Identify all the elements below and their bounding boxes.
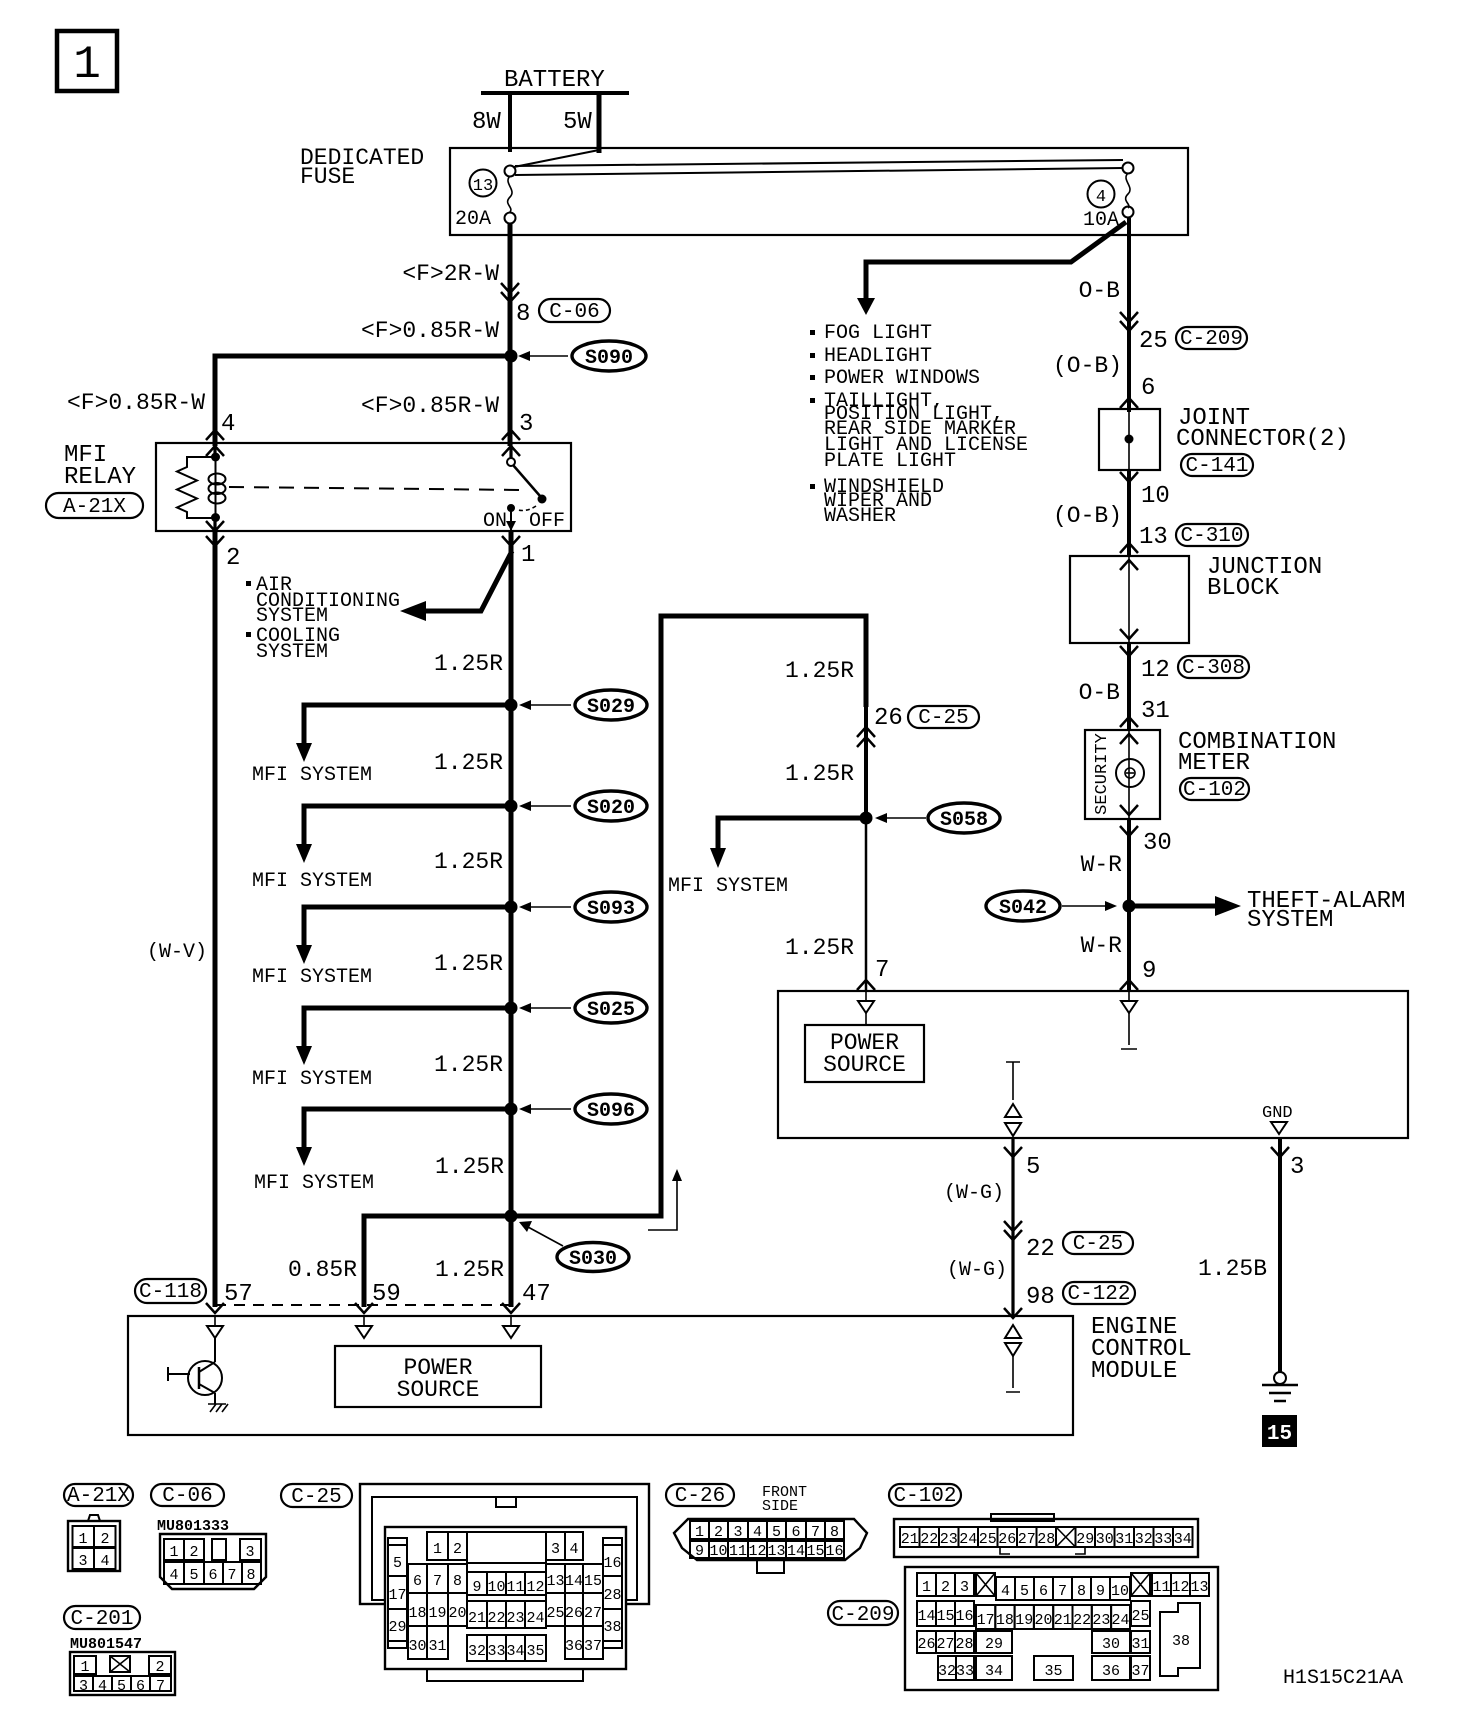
connector drawing C-102 [894,1514,1198,1557]
wire rail to S058 upper [864,616,868,818]
svg-text:21: 21 [468,1610,486,1627]
splice S090 junction [505,350,518,363]
svg-text:4: 4 [569,1541,578,1558]
svg-text:MU801333: MU801333 [157,1518,229,1535]
junction block inner chevrons [1120,560,1138,639]
svg-text:15: 15 [936,1608,954,1625]
svg-text:MFI SYSTEM: MFI SYSTEM [668,875,788,898]
internal feed node [1005,1062,1021,1136]
pin 4 connector chevrons [206,430,224,456]
connector tag C-209 (bottom) [828,1601,898,1627]
svg-text:1.25R: 1.25R [435,1154,504,1180]
svg-text:2: 2 [226,545,240,572]
arrow S020 to junction [519,801,571,811]
svg-text:C-201: C-201 [70,1608,133,1631]
svg-text:(W-V): (W-V) [147,941,207,964]
svg-text:29: 29 [985,1636,1003,1653]
svg-text:24: 24 [959,1531,977,1548]
svg-text:C-118: C-118 [139,1281,202,1304]
svg-text:17: 17 [977,1612,995,1629]
svg-text:27: 27 [1018,1531,1036,1548]
svg-text:S020: S020 [587,797,635,820]
svg-text:FUSE: FUSE [300,164,355,190]
svg-text:24: 24 [526,1610,544,1627]
connector crossing 22 C-25 chevrons [1004,1221,1022,1240]
svg-text:31: 31 [1141,698,1170,725]
connector crossing 26 C-25 chevrons [857,727,875,747]
connector crossing C-06 chevrons [501,283,519,302]
ECM pin 59 terminal [356,1316,372,1338]
svg-text:19: 19 [428,1605,446,1622]
svg-text:4: 4 [221,411,235,438]
battery B1 [481,67,629,94]
wire through junction block [1128,556,1130,643]
svg-text:CONNECTOR(2): CONNECTOR(2) [1176,426,1349,453]
svg-text:PLATE LIGHT: PLATE LIGHT [824,450,956,473]
arrow S042 to junction [1062,901,1117,911]
page number box 1 [57,31,117,91]
svg-text:20A: 20A [455,208,491,231]
svg-text:34: 34 [985,1663,1003,1680]
wire pin 2 stub from coil [213,517,216,531]
svg-text:23: 23 [506,1610,524,1627]
svg-text:5: 5 [189,1567,198,1584]
svg-text:27: 27 [936,1636,954,1653]
pin 1 exit chevrons [502,536,520,546]
svg-text:S025: S025 [587,999,635,1022]
svg-text:98: 98 [1026,1284,1055,1311]
svg-text:9: 9 [695,1543,704,1560]
svg-text:8: 8 [1077,1583,1086,1600]
svg-text:C-209: C-209 [831,1604,894,1627]
svg-text:6: 6 [136,1678,145,1695]
svg-text:33: 33 [487,1643,505,1660]
svg-text:29: 29 [1076,1531,1094,1548]
svg-text:30: 30 [1102,1636,1120,1653]
svg-text:2: 2 [453,1541,462,1558]
wire meter to pin 9 [1127,819,1131,991]
svg-text:W-R: W-R [1081,933,1123,959]
ECM pin 47 terminal [503,1316,519,1338]
svg-text:C-102: C-102 [1183,779,1246,802]
arrow S090 to junction [518,351,568,361]
svg-text:FOG LIGHT: FOG LIGHT [824,322,932,345]
svg-text:1: 1 [169,1544,178,1561]
svg-text:21: 21 [1054,1612,1072,1629]
svg-text:18: 18 [408,1605,426,1622]
svg-text:22: 22 [920,1531,938,1548]
svg-text:METER: METER [1178,750,1250,777]
arrow to light systems [857,298,875,315]
svg-text:1: 1 [922,1579,931,1596]
junction block entry chevron [1120,543,1138,553]
svg-text:7: 7 [811,1524,820,1541]
svg-text:9: 9 [472,1579,481,1596]
svg-text:1: 1 [73,39,101,91]
connector tag C-26 [666,1484,734,1508]
svg-text:2: 2 [714,1524,723,1541]
svg-text:O-B: O-B [1079,680,1120,706]
branch wire to MFI system 1 [304,705,511,745]
svg-text:S030: S030 [569,1248,617,1271]
svg-text:1: 1 [78,1531,87,1548]
svg-text:26: 26 [565,1605,583,1622]
svg-text:7: 7 [875,957,889,984]
svg-text:MFI SYSTEM: MFI SYSTEM [252,870,372,893]
svg-text:20: 20 [448,1605,466,1622]
relay switch [507,458,547,531]
connector tag C-141 [1181,454,1253,478]
relay coil node bottom [211,513,220,522]
ECM internal transistor [168,1338,222,1404]
svg-text:25: 25 [1139,328,1168,355]
svg-text:C-141: C-141 [1185,455,1248,478]
svg-text:GND: GND [1262,1104,1293,1123]
svg-text:C-26: C-26 [675,1485,725,1508]
svg-text:5: 5 [1020,1583,1029,1600]
splice tag S090 [572,341,646,371]
svg-text:35: 35 [1044,1663,1062,1680]
splice S030 junction [505,1210,518,1223]
ground wire 1.25B [1278,1138,1282,1372]
connector drawing C-26 [674,1519,867,1573]
svg-text:S029: S029 [587,696,635,719]
svg-text:10: 10 [1111,1583,1129,1600]
svg-text:5W: 5W [563,109,592,136]
svg-text:SYSTEM: SYSTEM [1247,907,1333,934]
svg-text:4: 4 [753,1524,762,1541]
svg-text:32: 32 [938,1663,956,1680]
svg-text:8W: 8W [472,109,501,136]
svg-text:C-102: C-102 [893,1485,956,1508]
connector tag C-25 (wire) [1063,1232,1133,1256]
branch wire to MFI system (S058) [718,818,866,850]
wire 5W to bus junction [514,150,599,167]
svg-text:H1S15C21AA: H1S15C21AA [1283,1667,1403,1690]
wire S030 to ECM pin 47 [509,1216,514,1307]
meter entry chevron [1120,717,1138,727]
branch wire to MFI system 2 [304,806,511,846]
svg-text:(O-B): (O-B) [1053,353,1122,379]
svg-text:15: 15 [1267,1423,1292,1446]
svg-text:1.25R: 1.25R [434,951,503,977]
svg-text:12: 12 [1141,657,1170,684]
svg-text:16: 16 [825,1543,843,1560]
arrow S058 to junction [875,813,926,823]
svg-text:26: 26 [998,1531,1016,1548]
arrow to A/C and cooling systems [400,551,512,621]
arrow to theft-alarm system [1129,896,1241,916]
svg-text:8: 8 [246,1567,255,1584]
svg-text:14: 14 [917,1608,935,1625]
joint connector node [1125,435,1134,444]
connector tag C-06 (bottom) [151,1484,224,1508]
wire joint connector to junction block [1127,470,1131,556]
svg-text:25: 25 [1131,1608,1149,1625]
svg-text:C-25: C-25 [291,1486,341,1509]
svg-text:12: 12 [526,1579,544,1596]
connector drawing C-06 [160,1534,266,1589]
svg-text:19: 19 [1015,1612,1033,1629]
svg-text:MFI SYSTEM: MFI SYSTEM [254,1172,374,1195]
svg-text:59: 59 [372,1281,401,1308]
ECM pin 57 terminal [207,1316,223,1338]
power source box (right) [778,991,1408,1138]
meter exit chevron [1120,826,1138,836]
wire relay pin 2 down (W-V) [213,531,218,1307]
splice S093 junction [505,901,518,914]
pin 6 entry chevron [1120,398,1138,408]
svg-text:28: 28 [955,1636,973,1653]
svg-text:38: 38 [603,1619,621,1636]
svg-text:22: 22 [1073,1612,1091,1629]
svg-text:4: 4 [169,1567,178,1584]
connector tag C-102 (bottom) [889,1484,961,1508]
joint connector exit chevron [1120,472,1138,482]
svg-text:3: 3 [245,1544,254,1561]
svg-text:S090: S090 [585,347,633,370]
svg-text:8: 8 [830,1524,839,1541]
svg-text:C-25: C-25 [1073,1233,1123,1256]
fog light list [810,322,1028,528]
svg-text:11: 11 [729,1543,747,1560]
svg-text:3: 3 [960,1579,969,1596]
fuse number 4 [1088,181,1115,208]
svg-text:1.25R: 1.25R [785,761,854,787]
svg-text:22: 22 [487,1610,505,1627]
svg-text:SOURCE: SOURCE [823,1052,906,1078]
svg-text:1.25R: 1.25R [434,750,503,776]
svg-text:29: 29 [388,1619,406,1636]
fuse 4 element [1123,163,1134,218]
svg-text:28: 28 [1037,1531,1055,1548]
continuation arrow annotation [648,1169,682,1230]
wire fuse 4 branch to lights [866,222,1126,301]
svg-text:(W-G): (W-G) [947,1259,1007,1282]
wire fuse 4 output O-B [1127,218,1131,412]
svg-text:24: 24 [1111,1612,1129,1629]
wire pin 4 stub to coil [213,443,216,457]
security indicator lamp [1116,759,1144,787]
svg-text:33: 33 [956,1663,974,1680]
svg-text:5: 5 [117,1678,126,1695]
branch wire to MFI system 5 [304,1109,511,1149]
svg-text:3: 3 [519,411,533,438]
svg-text:RELAY: RELAY [64,464,136,491]
svg-text:31: 31 [1131,1636,1149,1653]
fuse number 13 [470,170,497,197]
connector tag C-122 [1063,1282,1135,1306]
svg-text:18: 18 [996,1612,1014,1629]
svg-text:S042: S042 [999,897,1047,920]
connector tag C-201 [64,1606,140,1631]
relay resistor [177,457,215,518]
splice S042 junction [1123,900,1136,913]
wire through meter [1128,730,1130,819]
svg-text:2: 2 [100,1531,109,1548]
svg-text:BLOCK: BLOCK [1207,575,1280,602]
pin 3 connector chevrons [502,430,520,456]
svg-text:ON: ON [483,510,507,533]
svg-text:C-310: C-310 [1180,525,1243,548]
svg-text:9: 9 [1096,1583,1105,1600]
wire fuse 13 to C-06 (main feed) [508,223,513,446]
svg-text:1.25R: 1.25R [785,658,854,684]
branch wire to MFI system 4 [304,1008,511,1048]
wire pin 3 stub to switch [509,443,512,459]
engine control module box [128,1316,1073,1435]
svg-text:1: 1 [695,1524,704,1541]
connector tag C-310 [1176,524,1248,548]
connector tag A-21X [46,493,143,519]
svg-text:1.25B: 1.25B [1198,1256,1267,1282]
splice S029 junction [505,699,518,712]
ground symbol [1262,1372,1298,1401]
splice S058 junction [860,812,873,825]
ECM pin 98 entry chevron [1004,1308,1022,1318]
svg-text:W-R: W-R [1081,852,1123,878]
fuse 13 element [505,166,516,224]
svg-text:2: 2 [189,1544,198,1561]
splice S020 junction [505,800,518,813]
junction block box [1070,556,1189,643]
svg-text:26: 26 [874,705,903,732]
pin 57 chevron [206,1303,224,1313]
pin 2 exit chevrons [206,521,224,546]
svg-text:(O-B): (O-B) [1053,503,1122,529]
svg-text:2: 2 [941,1579,950,1596]
svg-text:5: 5 [1026,1154,1040,1181]
svg-text:23: 23 [940,1531,958,1548]
svg-text:13: 13 [1139,524,1168,551]
svg-text:WASHER: WASHER [824,505,896,528]
connector drawing A-21X [68,1515,120,1571]
svg-text:3: 3 [551,1541,560,1558]
meter inner chevrons [1120,734,1138,815]
wire junction block to meter [1127,643,1131,730]
svg-text:4: 4 [1001,1583,1010,1600]
svg-text:30: 30 [408,1638,426,1655]
connector tag A-21X (bottom) [64,1484,133,1508]
splice tag S096 [575,1094,647,1124]
switch throw arrow [506,509,516,531]
pin 7 terminal [858,991,874,1025]
connector tag C-308 [1178,656,1249,680]
splice tag S020 [575,791,647,821]
svg-text:(W-G): (W-G) [944,1182,1004,1205]
svg-text:15: 15 [584,1573,602,1590]
svg-text:38: 38 [1172,1633,1190,1650]
relay coil node top [211,453,220,462]
svg-text:2: 2 [155,1659,164,1676]
svg-text:C-06: C-06 [162,1485,212,1508]
svg-text:26: 26 [917,1636,935,1653]
arrow S096 to junction [519,1104,571,1114]
svg-text:34: 34 [1174,1531,1192,1548]
svg-text:C-06: C-06 [549,301,599,324]
pin 9 entry chevron [1120,980,1138,990]
svg-text:33: 33 [1154,1531,1172,1548]
svg-text:A-21X: A-21X [67,1485,130,1508]
pin 3 exit chevron [1271,1147,1289,1157]
arrow S025 to junction [519,1003,571,1013]
wire relay pin 1 down (main 1.25R rail) [509,531,514,1216]
pin 5 exit chevron [1004,1147,1022,1157]
svg-text:16: 16 [955,1608,973,1625]
arrow S093 to junction [519,902,571,912]
splice tag S029 [575,690,647,720]
svg-text:POWER WINDOWS: POWER WINDOWS [824,367,980,390]
svg-text:5: 5 [772,1524,781,1541]
connector tag C-102 [1180,778,1249,802]
svg-text:1.25R: 1.25R [434,1052,503,1078]
pin 47 chevron [502,1303,520,1313]
svg-text:3: 3 [1290,1154,1304,1181]
svg-text:10: 10 [487,1579,505,1596]
connector drawing C-25 [360,1484,649,1681]
splice tag S058 [928,803,1000,833]
svg-text:BATTERY: BATTERY [504,67,605,94]
junction block exit chevron [1120,646,1138,656]
svg-text:25: 25 [546,1605,564,1622]
svg-text:0.85R: 0.85R [288,1257,357,1283]
svg-text:6: 6 [791,1524,800,1541]
connector tag C-209 [1176,327,1247,351]
wire pin 5 to ECM pin 98 [1011,1138,1014,1316]
svg-text:14: 14 [787,1543,805,1560]
svg-text:3: 3 [733,1524,742,1541]
svg-text:11: 11 [506,1579,524,1596]
fuse bus bar wires [515,160,1123,166]
svg-text:22: 22 [1026,1236,1055,1263]
svg-text:<F>0.85R-W: <F>0.85R-W [361,318,499,344]
relay coil [209,457,226,518]
pin 7 entry chevron [857,980,875,990]
splice tag S042 [986,891,1060,921]
svg-text:1.25R: 1.25R [434,651,503,677]
svg-text:4: 4 [98,1678,107,1695]
connector tag C-118 [135,1279,206,1304]
svg-text:S093: S093 [587,898,635,921]
svg-text:23: 23 [1092,1612,1110,1629]
svg-text:A-21X: A-21X [63,496,126,519]
power source label box (right) [805,1025,924,1082]
wire S058 to pin 7 [865,818,868,991]
svg-text:1: 1 [80,1659,89,1676]
splice tag S025 [575,993,647,1023]
svg-text:14: 14 [565,1573,583,1590]
svg-text:<F>0.85R-W: <F>0.85R-W [361,393,499,419]
svg-text:SIDE: SIDE [762,1498,798,1515]
splice tag S030 [557,1243,629,1272]
svg-text:28: 28 [603,1587,621,1604]
svg-text:31: 31 [1115,1531,1133,1548]
connector tag C-25 (bottom) [281,1484,352,1509]
arrow S030 to junction [519,1221,563,1246]
splice S096 junction [505,1103,518,1116]
connector crossing 25 C-209 chevrons [1120,312,1138,331]
svg-text:5: 5 [393,1555,402,1572]
svg-text:32: 32 [1135,1531,1153,1548]
svg-text:1.25R: 1.25R [434,849,503,875]
svg-text:C-25: C-25 [918,707,968,730]
combination meter box [1085,730,1160,819]
wire S030 to ECM pin 59 [364,1216,511,1307]
joint connector box [1099,409,1160,470]
svg-text:6: 6 [1039,1583,1048,1600]
svg-text:6: 6 [208,1567,217,1584]
svg-text:8: 8 [516,301,530,328]
